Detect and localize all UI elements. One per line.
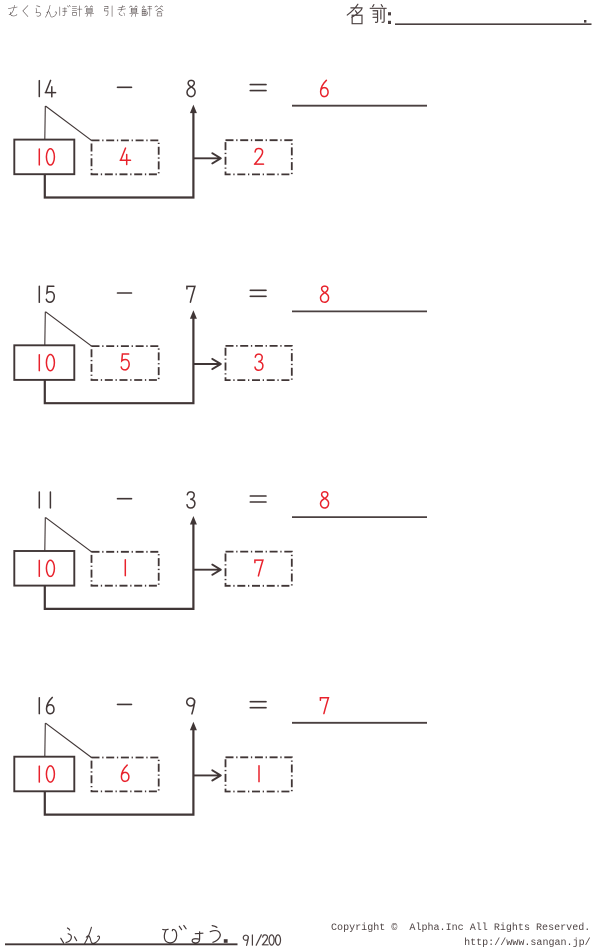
- subtrahend 7: [187, 286, 195, 302]
- ones box value 6 (red): [121, 765, 128, 781]
- equals sign: [250, 702, 266, 708]
- ten box value 10 (red): [39, 560, 54, 576]
- dakuten of び: [179, 926, 186, 930]
- ones box (dashed): [92, 346, 159, 380]
- ones box (dashed): [92, 140, 159, 174]
- ones box value 5 (red): [121, 354, 129, 370]
- split line to ten-box: [44, 312, 47, 346]
- ones box value 4 (red): [120, 148, 130, 164]
- wire from ten box up to subtrahend: [45, 520, 194, 609]
- problem 2: 15 - 7 = 8: [14, 286, 427, 403]
- footer kana: び: [163, 929, 177, 943]
- split line to ones-box (diagonal): [46, 723, 92, 757]
- arrow to result box: [193, 359, 220, 369]
- footer kana: ょ: [192, 932, 203, 943]
- svg-text:http://www.sangan.jp/: http://www.sangan.jp/: [464, 937, 591, 949]
- split line to ones-box (diagonal): [46, 517, 92, 551]
- subtrahend 9: [187, 698, 195, 714]
- ten box value 10 (red): [39, 149, 54, 165]
- footer kana: ふ: [61, 928, 77, 943]
- header title: さくらんぼ計算 引き算解答: [8, 5, 163, 17]
- wire from ten box up to subtrahend: [45, 315, 194, 404]
- subtrahend 3: [187, 492, 195, 508]
- split line to ones-box (diagonal): [46, 106, 92, 140]
- equals sign: [250, 290, 266, 296]
- page number 91/200: [243, 935, 280, 945]
- ones box (dashed): [92, 552, 159, 586]
- ten box (solid): [14, 551, 74, 586]
- result value 3 (red): [255, 354, 263, 370]
- footer kana: う: [210, 926, 220, 943]
- minuend 15: [39, 286, 54, 302]
- arrow to result box: [193, 770, 220, 780]
- split line to ten-box: [44, 517, 47, 551]
- ten box (solid): [14, 345, 74, 380]
- result box (dashed): [226, 757, 292, 791]
- split line to ones-box (diagonal): [46, 312, 92, 346]
- result value 2 (red): [255, 148, 264, 164]
- split line to ten-box: [44, 106, 47, 140]
- result value 7 (red): [255, 560, 263, 576]
- ten box (solid): [14, 140, 74, 175]
- arrowhead up: [190, 722, 197, 731]
- answer 8 (red): [321, 492, 329, 508]
- problem 4: 16 - 9 = 7: [14, 697, 427, 814]
- minus sign: [118, 498, 132, 500]
- answer underline: [292, 310, 427, 312]
- arrowhead up: [190, 105, 197, 114]
- arrow to result box: [193, 153, 220, 163]
- footer period: [224, 939, 228, 943]
- result value 1 (red): [258, 766, 260, 782]
- arrowhead up: [190, 310, 197, 319]
- problem 1: 14 - 8 = 6: [14, 80, 427, 197]
- equals sign: [250, 496, 266, 502]
- subtrahend 8: [187, 80, 195, 96]
- answer 8 (red): [321, 286, 329, 302]
- arrow to result box: [193, 565, 220, 575]
- svg-text:Copyright © Alpha.Inc All Rig: Copyright © Alpha.Inc All Rights Reserve…: [331, 922, 590, 934]
- equals sign: [250, 85, 266, 91]
- answer underline: [292, 516, 427, 518]
- minuend 16: [39, 697, 54, 713]
- answer underline: [292, 105, 427, 107]
- ten box value 10 (red): [39, 766, 54, 782]
- arrowhead up: [190, 516, 197, 525]
- result box (dashed): [226, 552, 292, 586]
- problem 3: 11 - 3 = 8: [14, 492, 427, 609]
- answer underline: [292, 722, 427, 724]
- name colon: [388, 12, 391, 24]
- split line to ten-box: [44, 723, 47, 757]
- result box (dashed): [226, 140, 292, 174]
- ten box value 10 (red): [39, 355, 54, 371]
- answer 7 (red): [320, 698, 328, 714]
- footer kana: ん: [84, 927, 99, 944]
- name underline: [395, 23, 592, 25]
- ones box (dashed): [92, 758, 159, 792]
- minuend 14: [39, 80, 55, 96]
- minus sign: [118, 292, 132, 294]
- minuend 11: [39, 492, 50, 508]
- ones box value 1 (red): [124, 560, 126, 576]
- wire from ten box up to subtrahend: [45, 726, 194, 815]
- minus sign: [118, 703, 132, 705]
- footer underline: [5, 943, 238, 945]
- wire from ten box up to subtrahend: [45, 109, 194, 198]
- ten box (solid): [14, 757, 74, 792]
- answer 6 (red): [321, 80, 329, 96]
- name label: 名前:: [347, 4, 386, 23]
- minus sign: [118, 86, 132, 88]
- result box (dashed): [226, 346, 292, 380]
- name trailing period: [584, 20, 586, 23]
